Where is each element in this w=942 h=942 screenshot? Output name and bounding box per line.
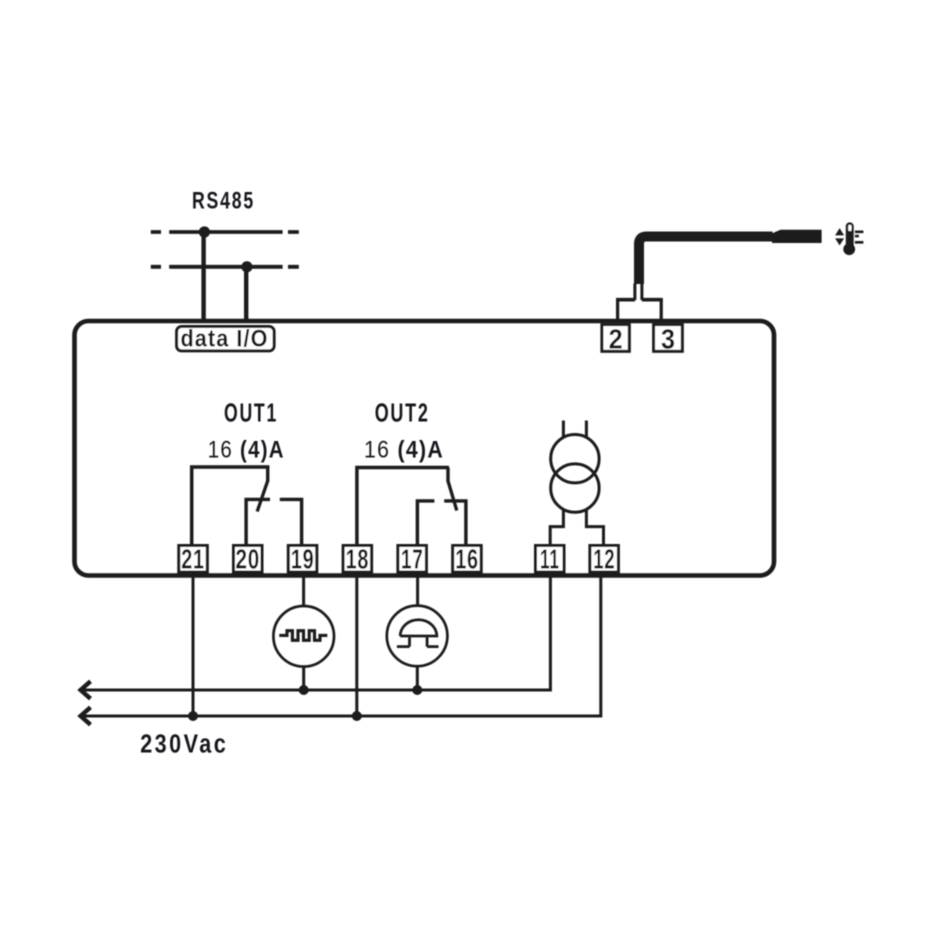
supply line L (upper) to terminal 11	[81, 574, 550, 691]
junction node on bus B	[241, 261, 252, 272]
svg-text:2: 2	[609, 324, 623, 355]
terminal 16	[453, 546, 482, 573]
svg-text:OUT2: OUT2	[375, 400, 430, 428]
terminal 18	[343, 546, 372, 573]
probe wire pair split	[635, 284, 642, 301]
transformer T1 primary stub right	[585, 421, 588, 438]
terminal 17	[398, 546, 427, 573]
terminal 3	[654, 325, 683, 352]
supply line L arrow	[81, 681, 91, 698]
wire bus A to data I/O	[201, 232, 205, 323]
junction node load L2 / line L	[412, 685, 422, 695]
terminal 20	[234, 546, 263, 573]
load L2 circle (defrost heater)	[387, 606, 448, 667]
wire terminal 19 to load L1	[302, 574, 305, 607]
load L1 circle (pulsed output)	[273, 606, 334, 667]
supply line N arrow	[81, 707, 91, 724]
supply line N (lower) to terminal 12	[81, 574, 601, 717]
RS485 bus line B	[151, 265, 299, 269]
controller body U1	[75, 321, 775, 576]
probe bracket leg to terminal 3	[660, 300, 663, 321]
relay OUT2 contact to terminal 17	[417, 501, 434, 544]
relay OUT2 contact to terminal 16	[444, 501, 466, 544]
svg-text:16 (4)A: 16 (4)A	[208, 436, 285, 463]
relay OUT2 blade	[448, 481, 457, 511]
svg-text:19: 19	[291, 544, 315, 575]
probe bulb	[772, 230, 822, 243]
svg-text:18: 18	[346, 544, 370, 575]
relay OUT1 common wire from terminal 21	[192, 467, 270, 544]
transformer T1 primary stub left	[562, 421, 565, 438]
load L2 dome symbol	[400, 620, 437, 636]
probe cable	[639, 237, 773, 285]
junction node wire18 / line N	[352, 711, 362, 721]
relay OUT1 blade	[257, 481, 268, 512]
terminal 12	[590, 546, 619, 573]
svg-text:21: 21	[181, 544, 205, 575]
svg-text:16 (4)A: 16 (4)A	[364, 436, 444, 463]
terminal 2	[602, 325, 629, 352]
terminal 19	[288, 546, 317, 573]
relay OUT2 pole drop	[446, 468, 449, 482]
svg-text:RS485: RS485	[192, 188, 255, 215]
probe bracket leg to terminal 2	[616, 300, 619, 321]
svg-text:17: 17	[401, 544, 424, 575]
junction node on bus A	[199, 226, 210, 237]
probe thermometer icon	[835, 222, 863, 255]
wire terminal 17 to load L2	[416, 574, 419, 607]
transformer wire to terminal 12	[586, 511, 603, 545]
relay OUT1 pole drop	[266, 467, 269, 482]
junction node wire21 / line N	[188, 711, 198, 721]
svg-text:data I/O: data I/O	[181, 326, 269, 353]
wire load L1 to line L	[302, 666, 305, 690]
svg-text:11: 11	[540, 544, 560, 575]
data I/O port box	[177, 327, 275, 351]
terminal 11	[536, 546, 565, 573]
svg-text:3: 3	[661, 324, 675, 355]
wire load L2 to line L	[416, 666, 419, 690]
relay OUT2 common wire from terminal 18	[357, 468, 449, 545]
RS485 bus line A	[151, 230, 299, 234]
load L1 pulse-train symbol	[279, 631, 327, 641]
junction node load L1 / line L	[299, 685, 309, 695]
wire terminal 18 to line N	[355, 574, 358, 717]
svg-text:230Vac: 230Vac	[140, 729, 228, 759]
relay OUT1 contact to terminal 20	[246, 499, 270, 544]
transformer T1 winding upper	[551, 435, 599, 483]
probe bracket bar	[616, 298, 663, 302]
svg-text:20: 20	[236, 544, 261, 575]
svg-text:OUT1: OUT1	[224, 400, 278, 428]
svg-text:16: 16	[455, 544, 479, 575]
transformer T1 winding lower	[551, 464, 599, 512]
terminal 21	[179, 546, 208, 573]
wire bus B to data I/O	[244, 267, 248, 323]
relay OUT1 contact to terminal 19	[280, 499, 302, 544]
wire terminal 21 to line N	[192, 574, 195, 717]
svg-text:12: 12	[593, 544, 615, 575]
transformer wire to terminal 11	[550, 511, 563, 545]
